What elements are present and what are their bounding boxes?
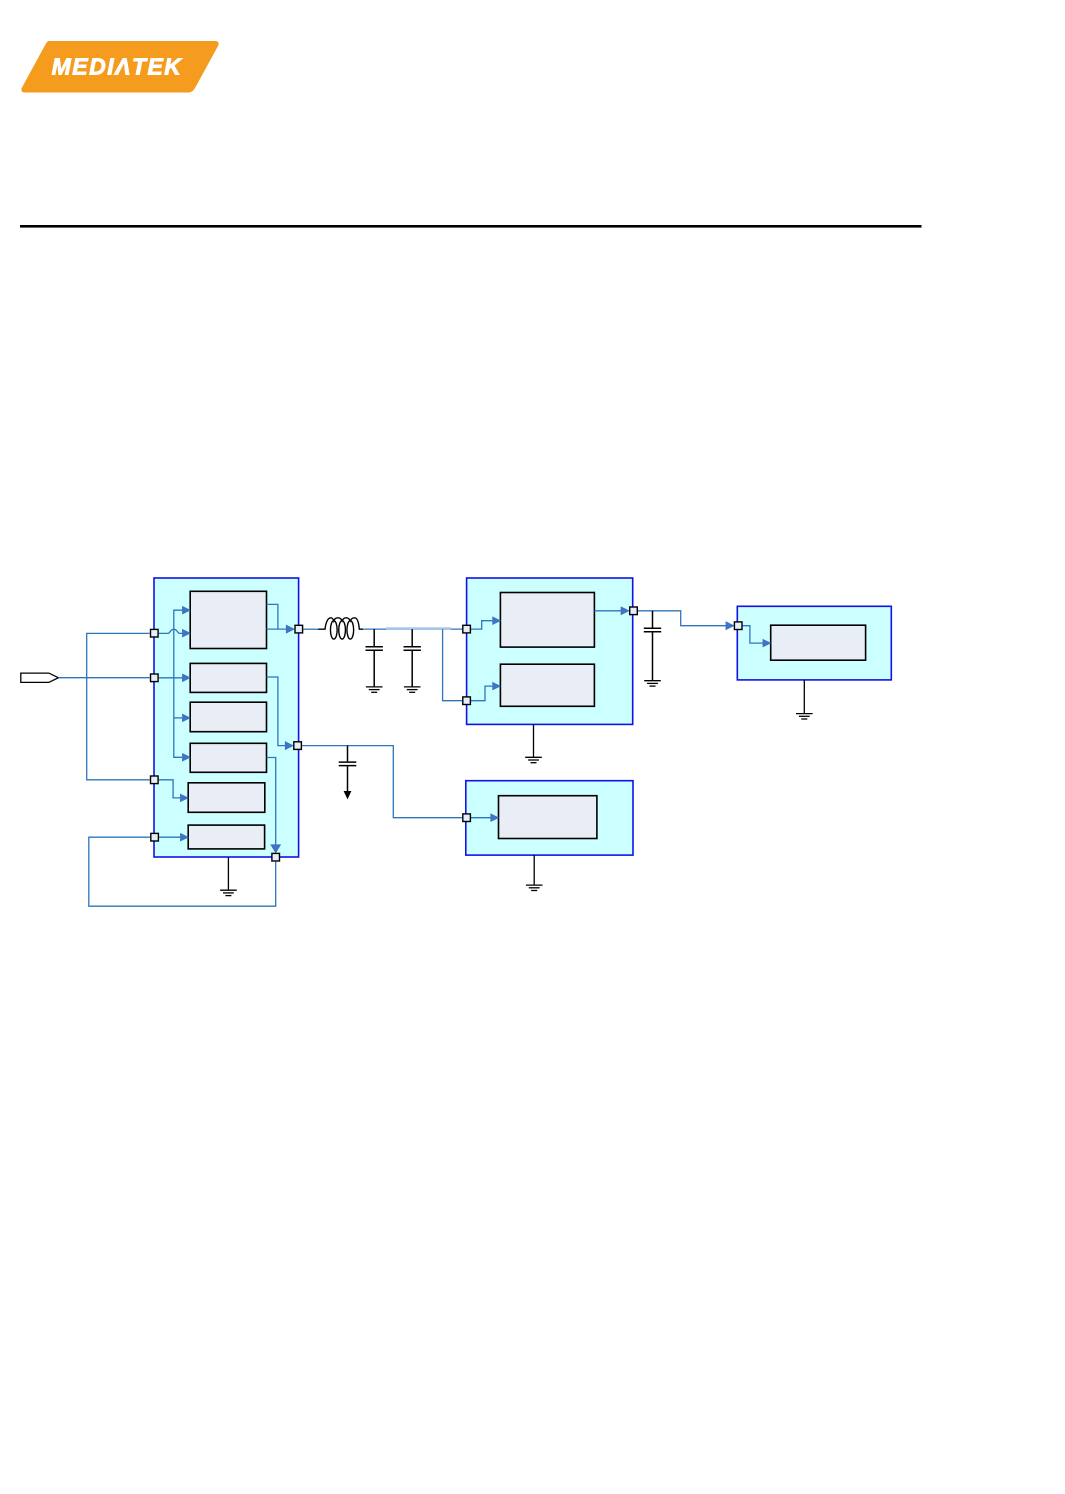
ground below U2 xyxy=(533,724,535,757)
port P1 xyxy=(151,629,159,637)
ground below U4 xyxy=(533,855,535,885)
wire: inductor to PM1 xyxy=(363,628,462,630)
wire: P1 to U1.B1 with hop xyxy=(159,629,183,633)
arrow into U1.B5 xyxy=(180,794,188,802)
sub-block U1.B6 xyxy=(188,825,264,849)
sub-block U2.BB xyxy=(500,664,594,706)
arrow into U1.B1 mid xyxy=(182,629,190,637)
port PD xyxy=(463,814,471,822)
arrow into PR1 xyxy=(286,625,294,633)
MediaTek logo xyxy=(21,41,218,93)
block U3 (right IC) xyxy=(737,606,891,680)
port P3 xyxy=(151,776,159,784)
sub-block U2.BA xyxy=(500,593,594,648)
port PR2 xyxy=(294,742,302,750)
wire: PR1 to inductor xyxy=(303,628,318,630)
wire: U1.B1 right to PR1 xyxy=(267,628,287,630)
capacitor C2 xyxy=(404,629,421,687)
sub-block U1.B5 xyxy=(188,783,265,813)
ground below U1 xyxy=(227,857,229,890)
wire: junction down to PM2 xyxy=(443,629,463,701)
wire: PM3 to PR (right block) xyxy=(638,611,726,626)
port PB xyxy=(272,853,280,861)
ground below U3 xyxy=(803,680,805,714)
wire: PR2 to U4 xyxy=(302,746,462,818)
wire: U1.B2 out to PR2 xyxy=(267,677,286,746)
wire: U2.BA out to PM3 xyxy=(594,610,621,612)
ground of C3 xyxy=(644,681,661,686)
sub-block U1.B3 xyxy=(190,702,266,732)
wire: P4 to U1.B6 xyxy=(159,836,180,838)
wire: flag to port P2 xyxy=(58,677,149,679)
port PR1 xyxy=(295,625,303,633)
capacitor C4 with open terminator xyxy=(339,746,357,792)
block U1 (left IC) xyxy=(154,578,299,857)
ground of C2 xyxy=(404,687,421,692)
arrow into U2.BA xyxy=(493,617,501,625)
sub-block U4.BD xyxy=(499,796,597,839)
sub-block U1.B2 xyxy=(190,663,266,692)
sub-block U1.B4 xyxy=(190,743,266,772)
arrow terminator of C4 xyxy=(344,791,352,799)
wire highlight overlay xyxy=(386,627,451,629)
arrow down into PB xyxy=(271,845,281,853)
capacitor C3 xyxy=(644,611,661,681)
arrow into PM3 xyxy=(621,607,629,615)
sub-block U1.B1 xyxy=(190,591,266,648)
port PR xyxy=(734,622,742,630)
wire: PM2 to U2.BB xyxy=(471,686,492,701)
wire: P2 to U1.B2 xyxy=(159,677,183,679)
block U2 (middle IC) xyxy=(467,578,633,724)
sub-block U3.BC xyxy=(771,625,866,660)
wire: P1 to P3 outer loop xyxy=(87,633,150,779)
block U4 (bottom IC) xyxy=(466,781,633,855)
wire: internal vertical distribution bus xyxy=(174,610,190,757)
arrow into U1.B3 xyxy=(182,714,190,722)
wire: branch to U1.B3 xyxy=(174,717,182,719)
arrow into U4.BD xyxy=(491,814,499,822)
wire: PM1 to U2.BA xyxy=(471,621,492,629)
arrow into U1.B4 xyxy=(182,754,190,762)
wire: PB to P4 outer loop xyxy=(89,837,276,906)
ground of C1 xyxy=(366,687,383,692)
arrow into U3.BC xyxy=(763,639,771,647)
port P2 xyxy=(151,674,159,682)
inductor L1 xyxy=(318,618,363,639)
input flag xyxy=(21,673,59,682)
arrow into U1.B1 top xyxy=(182,606,190,614)
wire: P3 to U1.B5 xyxy=(159,780,180,798)
port P4 xyxy=(151,833,159,841)
port PM3 xyxy=(630,607,638,615)
wire: U1.B4 out to PB xyxy=(267,758,276,845)
wire: PR to U3.BC xyxy=(743,626,763,643)
arrow into U1.B6 xyxy=(180,833,188,841)
header rule xyxy=(20,225,922,228)
arrow into U1.B2 xyxy=(182,674,190,682)
capacitor C1 xyxy=(366,629,383,687)
port PM2 xyxy=(463,697,471,705)
arrow into PR2 xyxy=(285,742,293,750)
wire: U1.B1 out loop to PR1 xyxy=(267,604,278,629)
arrow into PR xyxy=(726,622,734,630)
port PM1 xyxy=(463,625,471,633)
arrow into U2.BB xyxy=(493,682,501,690)
wire: PD to U4.BD xyxy=(471,817,491,819)
svg-text:MEDIΛTEK: MEDIΛTEK xyxy=(52,54,183,80)
